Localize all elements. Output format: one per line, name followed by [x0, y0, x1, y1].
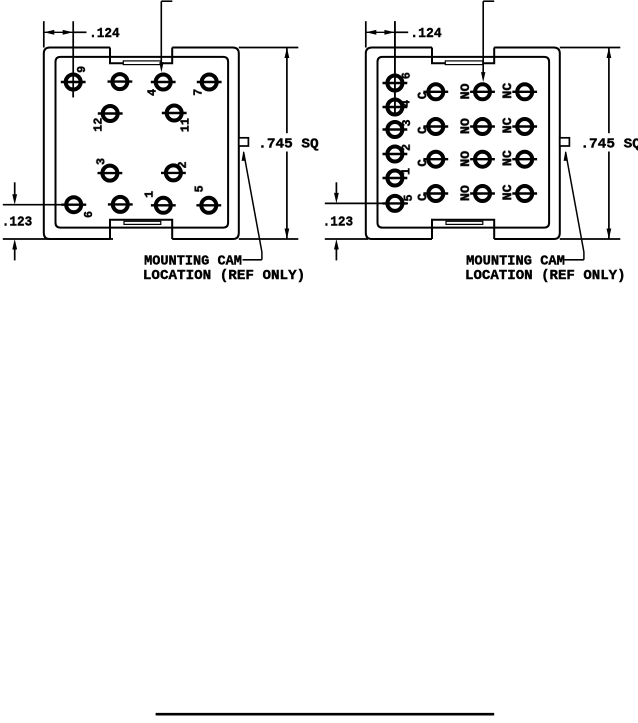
svg-text:C: C	[416, 126, 430, 134]
dimension .745 SQ line lower segment	[608, 152, 610, 240]
contact C row 1 (right view)	[416, 84, 448, 99]
svg-text:.124: .124	[410, 26, 441, 42]
dimension .745 SQ top extension line	[239, 47, 298, 49]
svg-text:MOUNTING CAM: MOUNTING CAM	[144, 254, 242, 269]
dimension .124 line	[44, 31, 73, 33]
pin 5 (left view)	[193, 185, 222, 212]
pin 9 (left view)	[61, 66, 89, 90]
top keying notch left side	[432, 48, 445, 64]
contact NO row 3 (right view)	[459, 150, 495, 167]
dimension .124 left extension line	[43, 21, 45, 47]
socket body inner outline	[56, 57, 229, 228]
svg-text:4: 4	[399, 100, 413, 107]
svg-text:3: 3	[94, 158, 108, 165]
contact NC row 4 (right view)	[501, 184, 537, 201]
mounting cam leader horizontal	[574, 259, 584, 261]
mounting cam	[239, 138, 249, 146]
dimension .123 lower arrow line	[14, 244, 16, 260]
extension line through terminals 6 and 4 (right view)	[394, 21, 396, 115]
terminal 1 (right view)	[383, 168, 414, 186]
svg-text:6: 6	[400, 72, 414, 79]
label leader dash (right view)	[565, 259, 575, 261]
leader line from above to pin 4 (left view) tick	[161, 0, 172, 2]
pin 11 (left view)	[162, 106, 193, 133]
terminal 6 (right view)	[383, 72, 414, 90]
contact NC row 2 (right view)	[501, 117, 537, 134]
dimension .124 tail line	[395, 31, 408, 33]
terminal 3 (right view)	[383, 119, 415, 137]
svg-text:C: C	[416, 159, 430, 167]
mounting cam leader vertical	[583, 252, 585, 260]
dimension .123 bottom extension line	[325, 238, 368, 240]
dimension .123 top extension line	[3, 204, 86, 206]
leader line from above to NO pin (right view)	[482, 1, 484, 73]
terminal 5 (right view)	[383, 194, 416, 210]
contact NO row 4 (right view)	[459, 185, 495, 202]
svg-text:5: 5	[402, 194, 416, 201]
top keying notch right side	[161, 48, 172, 64]
terminal 2 (right view)	[383, 144, 414, 162]
svg-text:12: 12	[92, 118, 106, 132]
top keying notch right side	[483, 48, 494, 64]
socket body outer outline right part	[172, 48, 239, 240]
svg-text:NO: NO	[459, 118, 473, 135]
dimension .123 upper arrow line	[14, 182, 16, 199]
leader line from above to pin 4 (left view)	[160, 1, 162, 63]
pin 7 (left view)	[192, 75, 222, 96]
socket body inner outline	[378, 57, 550, 228]
svg-text:2: 2	[400, 144, 414, 151]
dimension .745 SQ line lower segment	[286, 152, 288, 240]
pin 3 (left view)	[94, 158, 122, 181]
leader arrow onto NO contact pin (right view)	[481, 72, 485, 82]
svg-text:.745 SQ: .745 SQ	[580, 137, 638, 153]
svg-text:1: 1	[143, 191, 157, 198]
top key slot	[123, 61, 161, 65]
socket body outer outline left part	[366, 48, 432, 240]
leader line from above to NO pin (right view) tick	[483, 0, 494, 2]
dimension .123 upper arrow	[12, 194, 17, 205]
svg-text:C: C	[416, 91, 430, 99]
dimension .745 SQ top extension line	[560, 47, 621, 49]
dimension .745 SQ arrow up	[607, 48, 612, 59]
svg-text:7: 7	[192, 89, 206, 96]
top keying notch left side	[110, 48, 123, 64]
dimension .124 right extension line	[72, 21, 74, 97]
svg-text:6: 6	[82, 211, 96, 218]
svg-text:5: 5	[193, 185, 207, 192]
dimension .124 tail line	[73, 31, 86, 33]
dimension .123 upper arrow line	[335, 182, 337, 198]
mounting cam leader diagonal	[566, 152, 584, 252]
dimension .124 left arrow	[44, 30, 55, 35]
bottom key slot	[124, 221, 161, 224]
svg-text:.124: .124	[89, 26, 120, 42]
dimension .745 SQ line upper segment	[286, 48, 288, 134]
svg-text:LOCATION (REF ONLY): LOCATION (REF ONLY)	[143, 269, 305, 284]
mounting cam leader arrow	[242, 151, 246, 161]
mounting cam leader vertical	[261, 252, 263, 260]
svg-text:.123: .123	[323, 215, 354, 231]
dimension .124 right arrow	[63, 30, 73, 35]
svg-text:NC: NC	[501, 117, 515, 134]
pin 12 (left view)	[92, 106, 123, 132]
dimension .745 SQ line upper segment	[608, 48, 610, 134]
bottom key slot	[446, 221, 483, 224]
dimension .124 right extension line	[394, 21, 396, 115]
dimension .124 left extension line	[365, 21, 367, 47]
pin 4 (left view)	[146, 75, 176, 97]
mounting cam leader diagonal	[244, 152, 262, 252]
leader arrow onto pin 4 (left view)	[159, 62, 163, 72]
svg-text:NO: NO	[459, 185, 473, 202]
terminal 4 (right view)	[383, 100, 414, 115]
svg-text:NO: NO	[459, 150, 473, 167]
contact NO row 2 (right view)	[459, 118, 495, 135]
label leader dash (left view)	[243, 259, 253, 261]
socket body outer outline right part	[494, 48, 560, 240]
contact NC row 3 (right view)	[501, 150, 537, 167]
svg-text:9: 9	[75, 66, 89, 73]
svg-text:1: 1	[399, 168, 413, 175]
svg-text:MOUNTING CAM: MOUNTING CAM	[466, 254, 565, 269]
bottom keying notch	[432, 220, 494, 239]
contact C row 4 (right view)	[416, 186, 448, 201]
dimension .124 right arrow	[384, 30, 395, 35]
pin 6 (left view)	[61, 197, 96, 218]
mounting cam	[560, 138, 570, 146]
svg-text:C: C	[416, 193, 430, 201]
svg-text:4: 4	[146, 89, 160, 96]
dimension .745 SQ arrow down	[607, 229, 612, 240]
pin 1 (left view)	[143, 191, 176, 213]
dimension .124 left arrow	[366, 30, 377, 35]
contact C row 3 (right view)	[416, 152, 448, 167]
svg-text:3: 3	[400, 119, 414, 126]
svg-text:NC: NC	[501, 82, 515, 99]
contact NC row 1 (right view)	[501, 82, 537, 99]
svg-text:NC: NC	[501, 150, 515, 167]
svg-text:11: 11	[179, 118, 193, 132]
dimension .123 upper arrow	[334, 193, 339, 204]
svg-text:2: 2	[176, 161, 190, 168]
dimension .123 top extension line	[325, 202, 408, 204]
bottom keying notch	[110, 220, 172, 239]
mounting cam leader horizontal	[252, 259, 262, 261]
contact C row 2 (right view)	[416, 119, 448, 134]
contact NO row 1 (right view)	[459, 83, 495, 100]
dimension .123 bottom extension line	[3, 238, 113, 240]
svg-text:NO: NO	[459, 83, 473, 100]
pin 2 (left view)	[161, 161, 190, 180]
pin 10 (left view)	[108, 74, 133, 89]
dimension .745 SQ bottom extension line	[239, 238, 298, 240]
dimension .123 lower arrow	[12, 239, 17, 250]
dimension .745 SQ bottom extension line	[560, 238, 621, 240]
svg-text:.123: .123	[2, 215, 33, 231]
dimension .123 lower arrow	[334, 239, 339, 250]
svg-text:NC: NC	[501, 184, 515, 201]
socket body outer outline left part	[44, 48, 110, 240]
mounting cam leader arrow	[564, 151, 568, 161]
dimension .745 SQ arrow down	[285, 229, 290, 240]
svg-text:.745 SQ: .745 SQ	[258, 137, 319, 153]
svg-text:LOCATION (REF ONLY): LOCATION (REF ONLY)	[465, 269, 626, 284]
bottom rule	[156, 713, 495, 716]
top key slot	[445, 61, 483, 65]
pin 8 (left view)	[108, 197, 133, 212]
pin 9 centerline extension below (left view)	[72, 90, 74, 98]
dimension .745 SQ arrow up	[285, 48, 290, 59]
dimension .124 line	[366, 31, 395, 33]
dimension .123 lower arrow line	[335, 244, 337, 260]
